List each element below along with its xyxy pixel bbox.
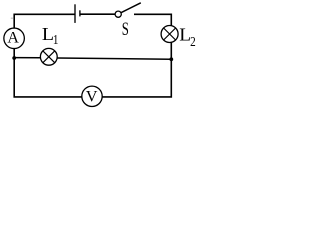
svg-text:V: V — [86, 89, 98, 106]
svg-text:S: S — [122, 20, 129, 40]
svg-text:2: 2 — [190, 34, 196, 49]
svg-text:A: A — [7, 30, 19, 47]
svg-text:1: 1 — [53, 32, 59, 47]
